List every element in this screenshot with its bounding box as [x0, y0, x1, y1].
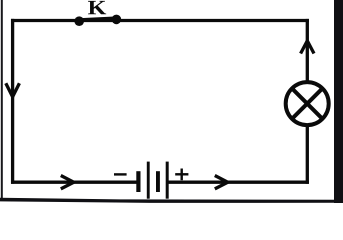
battery cell plate short (negative) 2 [156, 171, 160, 192]
current arrow right on bottom-left wire [61, 176, 74, 189]
switch contact dot right [112, 15, 122, 25]
wire top (node between switch and lamp / left branch) [11, 19, 309, 22]
battery cell plate tall (positive) 2 [166, 162, 169, 199]
lamp L (circle with X) [286, 82, 329, 125]
label K (switch) [88, 1, 106, 14]
current arrow up on right branch [301, 41, 314, 54]
wire right lower (lamp bottom lead) [306, 127, 309, 184]
current arrow down on left branch [6, 83, 20, 97]
battery cell plate short (negative) 1 [136, 171, 140, 192]
current arrow right on bottom-right wire [215, 176, 228, 189]
label minus (battery negative terminal) [114, 173, 127, 175]
switch contact dot left [74, 16, 84, 26]
switch K closed blade [79, 18, 118, 20]
wire right upper (lamp top lead) [306, 19, 309, 81]
wire bottom right (battery positive lead) [167, 181, 309, 184]
battery cell plate tall (positive) 1 [147, 162, 150, 199]
wire left branch [11, 19, 14, 184]
label plus (battery positive terminal) [175, 173, 188, 175]
wire bottom left (battery negative lead) [11, 181, 137, 184]
